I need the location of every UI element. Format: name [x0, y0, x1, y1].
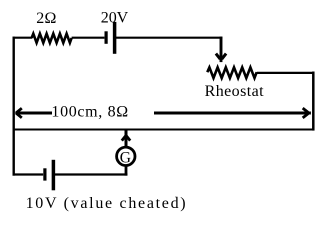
svg-text:10V (value cheated): 10V (value cheated) [26, 195, 186, 212]
svg-text:2Ω: 2Ω [36, 10, 56, 27]
jockey arrow shaft [125, 131, 128, 147]
jockey arrowhead up to wire [122, 136, 126, 141]
battery B1 20V short plate [104, 31, 107, 44]
battery B1 20V long plate [113, 22, 117, 54]
wire left vertical [12, 37, 14, 176]
svg-text:G: G [120, 149, 131, 166]
svg-text:20V: 20V [101, 10, 129, 27]
svg-text:100cm, 8Ω: 100cm, 8Ω [51, 104, 128, 121]
wire below galvanometer [125, 166, 128, 176]
rheostat zigzag [207, 67, 256, 78]
wire bottom left segment [13, 173, 44, 175]
svg-text:Rheostat: Rheostat [205, 83, 265, 100]
measure arrow right segment with right arrowhead [154, 112, 311, 115]
wire battery to top-right corner [116, 37, 222, 39]
wire rheostat to right corner [257, 72, 315, 74]
battery B2 10V long plate [52, 160, 56, 191]
wire battery to galvanometer [55, 173, 127, 175]
wire between resistor and battery [72, 37, 105, 39]
arrowhead down onto rheostat [216, 54, 220, 60]
galvanometer G [117, 147, 135, 165]
battery B2 10V short plate [43, 168, 46, 180]
wire corner down (rheostat tap arrow shaft) [220, 37, 223, 63]
measure arrow left segment with left arrowhead [15, 112, 52, 115]
wire top horizontal left [13, 37, 33, 39]
wire right vertical [312, 72, 315, 131]
wire potentiometer slide wire [13, 129, 315, 131]
resistor R1 2ohm zigzag [32, 34, 72, 43]
